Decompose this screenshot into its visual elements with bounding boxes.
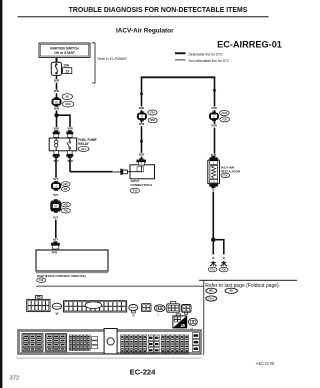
svg-text:CONNECTOR-2: CONNECTOR-2 [130,183,152,187]
wire: junction branch to relay right pin [57,114,71,131]
refer-to-last-page note [205,283,280,289]
connector face C2 long [64,301,127,312]
IACV-air regulator labels [221,166,241,178]
wire labels under relay [53,159,60,163]
ECM connector face (big box) [18,330,201,354]
legend: non-detectable line [175,59,230,63]
legend: detectable line [175,52,223,56]
svg-text:F20: F20 [222,268,227,271]
IACV-air regulator [208,156,220,188]
svg-text:REGULATOR: REGULATOR [221,169,241,173]
svg-text:TROUBLE DIAGNOSIS FOR NON-DETE: TROUBLE DIAGNOSIS FOR NON-DETECTABLE ITE… [69,7,248,14]
connector face C1 with tab [27,295,50,311]
svg-text:E101: E101 [65,103,71,106]
ECM label [37,274,86,283]
ECM face middle circle cavity [104,329,117,354]
svg-text:Refer to last page (Foldout pa: Refer to last page (Foldout page). [205,283,280,289]
header rule [18,16,269,17]
svg-text:F19: F19 [211,268,216,271]
svg-text:Detectable line for DTC: Detectable line for DTC [189,53,224,57]
joint connector-2 top pin 7 [136,158,146,165]
wire: connector to junction [56,106,58,114]
connector M32/F28 [50,199,61,213]
svg-text:F24: F24 [150,111,155,114]
joint connector-2 box [128,165,155,179]
svg-text:AEC317B: AEC317B [256,361,275,366]
ground connector labels [208,267,217,272]
svg-text:B/R: B/R [54,106,60,110]
wire: junction to relay left pin [56,115,58,131]
svg-text:F28: F28 [64,209,69,212]
top bus wire [141,76,216,78]
svg-text:B/R: B/R [54,127,60,131]
ECM face grid group 8 [192,333,199,352]
wire: relay to ECM (B/Y chain) [55,158,57,181]
arrow up on left riser [140,90,143,95]
diagram code EC-AIRREG-01 [217,39,282,49]
fuse 15A [13] [51,62,71,75]
connector C3 small square [141,304,151,312]
ground symbol right [221,261,228,266]
svg-text:B/R: B/R [68,127,74,131]
svg-text:E24: E24 [81,148,86,151]
svg-text:M52: M52 [150,119,155,122]
svg-text:45: 45 [180,323,185,328]
direction icon 45 (diagonal split) [173,314,187,328]
svg-text:IACV-Air Regulator: IACV-Air Regulator [116,27,174,34]
ECM face grid group 4 [92,337,98,349]
connector A oval 3-cell [155,305,166,317]
svg-text:1D: 1D [55,101,58,104]
header: section title [69,7,248,14]
ground symbol left [210,261,217,266]
svg-text:B/R: B/R [212,106,218,110]
connector D oval [189,318,198,331]
connector E20/M6 [51,181,61,191]
ECM pin FPR [51,241,60,249]
svg-text:ON or START: ON or START [54,51,75,55]
connector ref oval W [52,303,61,316]
svg-text:FPR: FPR [52,251,58,255]
svg-text:B/R: B/R [139,122,145,126]
svg-text:F16: F16 [223,174,228,177]
fuel pump relay [49,130,97,158]
separator line right [199,280,297,281]
connector M1/E101 [52,97,62,107]
svg-text:F102: F102 [222,112,228,115]
svg-text:F29: F29 [223,118,228,121]
arrow down on right riser [213,89,216,94]
ECM face grid group 3 [69,335,90,351]
right riser wire [214,77,216,160]
svg-text:F29: F29 [39,279,44,282]
ECM box [36,250,108,273]
connector O2 round [129,305,138,318]
wire: ignition switch to fuse [56,58,58,62]
wire to ECM pin [55,220,57,242]
svg-text:13: 13 [65,69,69,73]
wire: relay to joint connector-2 [70,158,121,171]
svg-text:B/R: B/R [54,89,60,93]
svg-text:,: , [221,289,222,293]
ground junction node [211,238,215,242]
wire: regulator to ground junction [212,188,214,240]
ECM face grid group 7 [161,335,188,353]
svg-text:E20: E20 [63,183,68,186]
page binding bar [0,0,2,388]
separator line left [36,285,204,288]
svg-text:372: 372 [10,376,20,382]
ground branch wires [213,239,224,255]
joint connector-2 labels [130,179,153,193]
foldout connector refs [206,288,238,301]
connector F24/M52 on left riser [137,111,147,121]
refer bracket EL-POWER [92,43,128,83]
svg-text:EC-224: EC-224 [130,367,157,376]
svg-text:B/R: B/R [54,79,60,83]
vertical divider [202,280,205,355]
svg-text:M32: M32 [63,203,68,206]
svg-text:B/R: B/R [139,106,145,110]
wire: fuse to connector M1 [56,75,58,97]
svg-text:15A: 15A [63,64,70,68]
scan shadow under ECM face [16,358,202,359]
ECM face grid group 5 [121,335,147,353]
power source: ignition switch box [39,43,90,57]
svg-text:ECM (ECCS CONTROL MODULE): ECM (ECCS CONTROL MODULE) [37,274,86,278]
connector B with top tab [167,301,180,312]
junction node [54,113,58,117]
joint connector-2 left pin [120,169,127,175]
svg-text:F101: F101 [208,297,214,300]
connector F102/F29 on right riser [209,111,219,121]
ECM face grid group 6 [148,335,159,353]
svg-text:B/R: B/R [114,170,120,174]
left riser wire to bus [141,77,143,159]
svg-text:EC-AIRREG-01: EC-AIRREG-01 [217,39,282,49]
svg-text:B/R: B/R [139,152,145,156]
ECM face grid group 1 [22,333,43,351]
svg-text:Non-detectable line for DTC: Non-detectable line for DTC [189,59,230,63]
page title: IACV-Air Regulator [116,27,174,34]
svg-text:B/R: B/R [212,124,218,128]
svg-text:E42: E42 [133,189,138,192]
svg-text:M31: M31 [209,290,214,293]
arrow up on left riser 2 [140,137,143,142]
svg-text:Refer to EL-POWER.: Refer to EL-POWER. [98,57,128,61]
svg-text:RELAY: RELAY [78,142,89,146]
connector C with bottom tab [182,305,191,315]
ECM face grid group 2 [46,333,67,351]
svg-text:W: W [55,312,58,316]
